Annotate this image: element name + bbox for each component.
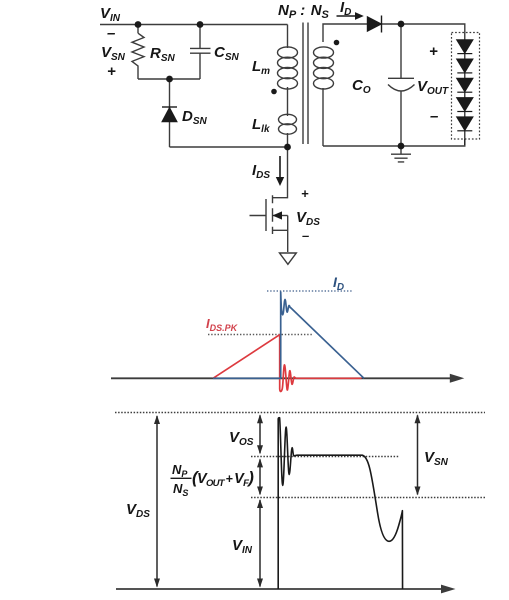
svg-text:VSN: VSN: [101, 44, 126, 63]
node: primary bottom junction: [284, 144, 291, 151]
diode output rectifier: [368, 16, 382, 33]
transformer primary phase dot: [271, 89, 277, 95]
node: snubber bottom junction: [166, 76, 173, 83]
node: C_SN top junction: [197, 21, 204, 28]
resistor R_SN: [132, 33, 144, 79]
inductor L_m winding: [278, 47, 298, 89]
secondary winding: [314, 47, 334, 89]
svg-text:VDS: VDS: [296, 209, 320, 228]
svg-text:VIN: VIN: [100, 5, 121, 24]
wire: drain rail to transformer: [170, 146, 288, 148]
axis (voltage plot): [116, 585, 456, 594]
transformer secondary lead bottom: [322, 88, 324, 146]
svg-text:VOUT: VOUT: [417, 78, 449, 97]
svg-text:VOS: VOS: [229, 429, 254, 448]
capacitor C_SN: [190, 48, 211, 53]
MOSFET channel segments: [272, 195, 274, 234]
svg-text:CSN: CSN: [214, 44, 240, 63]
capacitor C_O top plate: [388, 77, 414, 79]
dotted level I_DS.PK: [208, 334, 314, 336]
svg-text:NS: NS: [173, 481, 188, 498]
dotted level peak: [115, 412, 485, 414]
svg-text:IDS.PK: IDS.PK: [206, 316, 239, 333]
svg-text:ID: ID: [340, 0, 351, 18]
wire: C_SN top lead: [199, 25, 201, 49]
transformer primary lead top: [287, 25, 289, 49]
arrow I_D (top): [337, 12, 364, 20]
svg-text:IDS: IDS: [252, 162, 270, 181]
svg-text:DSN: DSN: [182, 108, 208, 127]
transformer primary lead bottom: [287, 133, 289, 147]
MOSFET gate lead: [250, 215, 267, 217]
node: output top junction: [398, 21, 405, 28]
waveform I_D (blue): [213, 292, 364, 378]
node: output bottom junction: [398, 143, 405, 150]
wire: diode to output node: [382, 24, 465, 33]
MOSFET gate bar: [265, 199, 267, 231]
LED D4: [457, 98, 473, 111]
wire: output bottom rail: [323, 139, 465, 146]
ground (output): [391, 146, 411, 162]
waveform I_DS (red): [213, 335, 362, 392]
waveform V_DS: [278, 418, 402, 589]
svg-text:VSN: VSN: [424, 449, 449, 468]
dotted level V_IN: [251, 497, 485, 499]
LED D5: [457, 117, 473, 130]
dotted level reflected: [251, 456, 400, 458]
arrow V_IN span: [259, 500, 261, 587]
svg-text:VDS: VDS: [126, 501, 150, 520]
wire: top input rail: [100, 24, 288, 26]
axis (current plot): [111, 374, 464, 383]
svg-text:RSN: RSN: [150, 45, 176, 64]
LED D2: [457, 59, 473, 72]
wire: C_O top lead: [400, 24, 402, 78]
svg-text:+: +: [107, 63, 116, 80]
LED D3: [457, 78, 473, 91]
transformer secondary phase dot: [334, 40, 340, 46]
wire: C_O bottom lead: [400, 91, 402, 146]
svg-text:(VOUT + VF): (VOUT + VF): [192, 468, 254, 489]
svg-text:CO: CO: [352, 77, 371, 96]
circuit labels: [100, 0, 449, 243]
arrow reflected span: [259, 459, 261, 494]
svg-text:Llk: Llk: [252, 116, 270, 135]
LED D1: [457, 40, 473, 53]
svg-text:VIN: VIN: [232, 537, 253, 556]
capacitor C_O bottom plate (curved): [388, 85, 415, 92]
arrow V_SN span: [417, 415, 419, 494]
svg-text:+: +: [301, 186, 309, 201]
wire: R_SN top lead: [137, 25, 139, 34]
transformer core: [303, 23, 308, 145]
label N_P/N_S fraction: [171, 462, 255, 498]
LED string diodes: [457, 33, 473, 145]
svg-text:+: +: [429, 43, 438, 60]
wire: LED string internal: [464, 33, 466, 145]
wire: MOSFET drain lead: [273, 147, 288, 198]
arrow I_DS (down into MOSFET): [276, 156, 284, 186]
wire: snubber bottom rail: [138, 78, 200, 80]
svg-text:–: –: [302, 228, 309, 243]
transformer secondary lead top: [323, 24, 367, 42]
wire: D_SN vertical: [169, 79, 171, 147]
ground (MOSFET source) triangle: [280, 253, 297, 264]
MOSFET source: [273, 216, 288, 253]
svg-text:–: –: [107, 25, 115, 42]
wire: C_SN bottom lead: [199, 53, 201, 79]
MOSFET body line: [273, 215, 288, 217]
svg-text:ID: ID: [333, 274, 344, 293]
transformer primary lead middle: [287, 87, 289, 116]
svg-text:–: –: [430, 108, 438, 125]
MOSFET body arrow: [272, 211, 282, 219]
svg-text:Lm: Lm: [252, 58, 270, 77]
svg-text:NP:NS: NP:NS: [278, 2, 330, 21]
diode D_SN: [162, 107, 177, 122]
LED string dashed box: [452, 33, 480, 140]
svg-text:NP: NP: [172, 462, 188, 479]
inductor L_lk winding: [279, 114, 297, 134]
junction dots: [135, 21, 405, 151]
arrow V_DS span: [156, 416, 158, 587]
node: R_SN top junction: [135, 21, 142, 28]
dotted level I_D: [267, 290, 352, 292]
arrow V_OS span: [259, 415, 261, 453]
